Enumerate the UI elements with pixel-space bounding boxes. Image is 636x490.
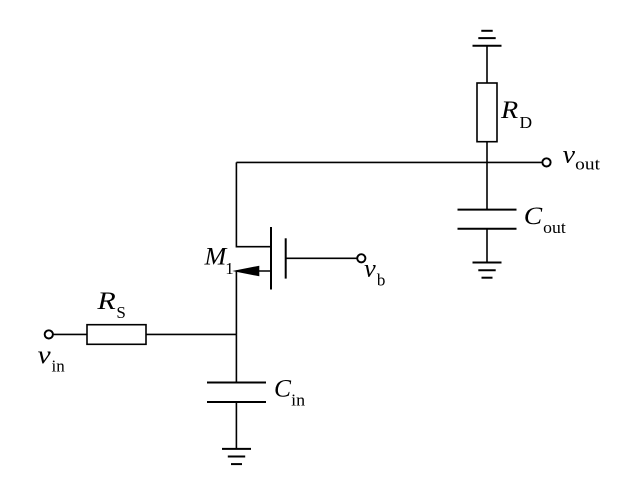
svg-text:1: 1: [225, 259, 234, 278]
svg-text:R: R: [500, 97, 518, 124]
svg-text:out: out: [575, 155, 600, 174]
svg-text:in: in: [291, 391, 306, 410]
capacitor Cout: [458, 210, 517, 229]
wire Cin to ground: [235, 402, 237, 449]
wire gate to vb terminal: [286, 257, 358, 259]
svg-text:R: R: [96, 288, 116, 315]
transistor M1 gate bar: [285, 238, 287, 278]
transistor M1 source lead with arrow: [236, 270, 271, 272]
label vin: [38, 342, 66, 376]
wire RD to output node: [486, 142, 488, 163]
wire supply to RD: [486, 46, 488, 83]
wire output node to Cout: [486, 162, 488, 209]
svg-text:C: C: [524, 203, 543, 230]
svg-text:C: C: [274, 376, 291, 403]
wire RS to input node: [146, 333, 236, 335]
svg-text:S: S: [116, 303, 125, 322]
transistor M1 channel bar: [270, 227, 272, 290]
wire Cout to ground: [486, 229, 488, 263]
svg-text:v: v: [38, 342, 52, 369]
resistor RS: [87, 325, 146, 345]
label M1: [203, 244, 233, 278]
terminal vb: [357, 254, 365, 262]
resistor RD: [477, 83, 497, 142]
terminal vin: [45, 330, 53, 338]
svg-text:b: b: [377, 270, 386, 289]
node: input net junction / wire down to Cin: [235, 334, 237, 382]
wire drain of M1 to output net: [236, 162, 271, 246]
svg-text:v: v: [563, 141, 576, 168]
svg-text:out: out: [543, 218, 566, 237]
wire vin to RS: [53, 333, 87, 335]
label RS: [96, 288, 126, 322]
svg-text:in: in: [52, 356, 66, 375]
ground (below Cout): [473, 263, 502, 278]
svg-text:M: M: [203, 244, 227, 271]
label vout: [563, 141, 601, 173]
supply rail symbol (inverted ground, VDD): [473, 31, 502, 46]
ground (below Cin): [222, 449, 251, 464]
capacitor Cin: [207, 383, 266, 403]
terminal vout: [542, 158, 550, 166]
label vb: [364, 256, 385, 290]
label RD: [500, 97, 532, 132]
wire output net (horizontal): [236, 161, 541, 163]
wire source of M1 down to input node: [235, 271, 237, 334]
svg-text:D: D: [520, 113, 533, 132]
label Cin: [274, 376, 306, 410]
label Cout: [524, 203, 566, 237]
svg-text:v: v: [364, 256, 377, 283]
